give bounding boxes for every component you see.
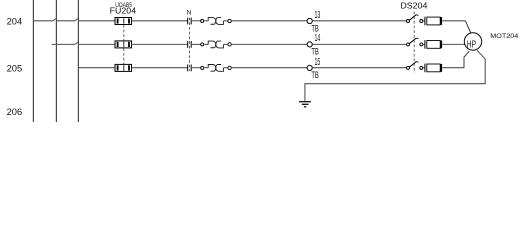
connector terminal circle phase A left: [201, 20, 204, 23]
connector terminal circle phase B left: [201, 43, 204, 46]
wire phase B to fuse FU204: [78, 43, 115, 45]
connector terminal circle phase C right: [228, 66, 231, 69]
bus line 3: [77, 0, 79, 122]
motor MOT204: [464, 33, 481, 50]
heater element phase B: [425, 40, 442, 49]
wire phase A TB to switch DS204: [312, 20, 406, 22]
wire phase C contactor to connector: [191, 67, 201, 69]
wire phase B contactor to connector: [191, 43, 201, 45]
wire phase A between bus 2 and bus 3: [56, 20, 75, 22]
wire phase B fuse to contactor N: [132, 43, 188, 45]
wire phase A to terminal block TB: [231, 20, 307, 22]
wire: [204, 67, 209, 69]
contactor N gang link (dashed): [189, 18, 191, 71]
connector plug-socket phase C: [208, 65, 223, 72]
wire phase B from bus 2: [52, 43, 75, 45]
contactor N contact pole A: [188, 18, 192, 25]
connector plug-socket phase B: [208, 41, 223, 48]
wire phase C rise into motor: [464, 51, 469, 68]
wire: [423, 43, 425, 45]
svg-text:HP: HP: [467, 40, 476, 51]
wire phase A fuse to contactor N: [132, 20, 188, 22]
wire phase A from bus 1: [33, 20, 53, 22]
wire phase B to terminal block TB: [231, 43, 307, 45]
terminal TB-13: [307, 18, 312, 23]
wire phase A to motor: [442, 20, 465, 22]
connector plug-socket phase A: [208, 18, 223, 25]
crossover hop phase A over bus 3: [75, 18, 79, 21]
svg-text:TB: TB: [311, 23, 318, 33]
wire phase A drop into motor: [465, 21, 470, 33]
wire phase A contactor to connector: [191, 20, 201, 22]
terminal TB-15: [307, 65, 312, 70]
crossover hop phase A over bus 2: [53, 18, 57, 21]
wire phase C fuse to contactor N: [132, 67, 188, 69]
switch DS204 gang link (dashed): [413, 12, 415, 74]
wire: [224, 20, 228, 22]
contactor N contact pole B: [188, 41, 192, 48]
fuse FU204 pole A: [115, 18, 132, 25]
svg-text:FU204: FU204: [110, 6, 137, 15]
crossover hop phase B over bus 3: [75, 42, 79, 45]
svg-text:MOT204: MOT204: [490, 33, 519, 40]
wire: [423, 67, 425, 69]
svg-text:15: 15: [315, 57, 321, 68]
svg-text:TB: TB: [311, 47, 318, 57]
fuse FU204 gang link (dashed): [123, 25, 125, 68]
svg-text:14: 14: [315, 33, 321, 44]
motor frame bond wire: [305, 50, 485, 101]
wire phase B to motor: [442, 43, 465, 45]
connector terminal circle phase B right: [228, 43, 231, 46]
switch DS204 pole A: [407, 15, 423, 23]
wire: [204, 20, 209, 22]
wire phase C from bus 3 to fuse FU204: [78, 67, 115, 69]
wire: [423, 20, 425, 22]
svg-text:TB: TB: [311, 70, 318, 80]
connector terminal circle phase C left: [201, 66, 204, 69]
wire phase A to fuse FU204: [78, 20, 115, 22]
fuse FU204 pole C: [115, 64, 132, 71]
wire phase C to terminal block TB: [231, 67, 307, 69]
wire phase C to motor: [442, 67, 464, 69]
switch DS204 pole B: [407, 38, 423, 46]
heater element phase C: [425, 64, 442, 73]
wire phase B TB to switch DS204: [312, 43, 406, 45]
switch DS204 pole C: [407, 62, 423, 70]
connector terminal circle phase A right: [228, 19, 231, 22]
heater element phase A: [425, 17, 442, 26]
svg-text:13: 13: [315, 10, 321, 21]
ground: [299, 102, 311, 107]
bus line 2: [55, 0, 57, 122]
fuse FU204 pole B: [115, 41, 132, 48]
svg-text:205: 205: [7, 64, 23, 74]
svg-text:204: 204: [7, 16, 23, 26]
bus line 1: [32, 0, 34, 122]
wire: [224, 43, 228, 45]
wire: [224, 67, 228, 69]
svg-text:N: N: [187, 10, 192, 17]
terminal TB-14: [307, 42, 312, 47]
wire phase C TB to switch DS204: [312, 67, 406, 69]
contactor N contact pole C: [188, 65, 192, 72]
svg-text:206: 206: [7, 107, 23, 117]
wire: [204, 43, 209, 45]
svg-text:DS204: DS204: [400, 2, 428, 11]
